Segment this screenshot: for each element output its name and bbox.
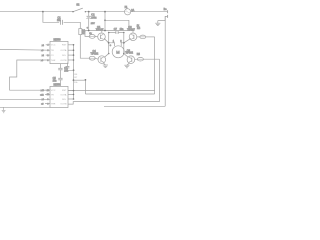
wire R2 to Q1 base <box>95 35 98 37</box>
resistor R3 oval <box>89 56 95 60</box>
resistor R1 <box>79 29 86 35</box>
svg-text:x6: x6 <box>41 50 44 52</box>
wire Q1 emitter diagonal <box>104 38 109 42</box>
node rail left top <box>108 32 110 34</box>
node bridge supply junction <box>104 11 106 13</box>
svg-text:TIP102: TIP102 <box>91 52 99 55</box>
node rail right top <box>123 32 125 34</box>
wire OUTA feedback <box>68 90 155 92</box>
wire Q1 pull-up <box>85 31 89 37</box>
node rail left bottom <box>108 53 110 55</box>
svg-text:+: + <box>87 27 89 30</box>
svg-text:2: 2 <box>47 55 48 57</box>
wire battery return bottom <box>104 105 165 107</box>
svg-text:M: M <box>116 50 119 55</box>
svg-text:+: + <box>110 44 112 47</box>
wire C4 to C5 <box>59 70 61 79</box>
IC U3 <box>50 84 68 107</box>
capacitor C4 <box>58 67 69 73</box>
svg-text:B+: B+ <box>164 8 168 11</box>
svg-text:C2: C2 <box>91 14 95 17</box>
svg-text:CV: CV <box>51 99 55 101</box>
svg-text:12: 12 <box>47 94 49 96</box>
svg-text:OUTB: OUTB <box>60 60 67 62</box>
wire U2 pin7 chain <box>59 64 61 69</box>
node timing net <box>85 79 87 81</box>
wire left motor rail <box>108 33 110 54</box>
U3 pin 4 stub <box>45 103 50 105</box>
U3 pin 1 stub <box>45 89 50 91</box>
capacitor C7 snubber <box>109 28 124 34</box>
node battery feed junction <box>42 11 44 13</box>
node bus upper <box>73 69 75 71</box>
svg-text:R5: R5 <box>137 53 141 56</box>
transistor Q3 <box>91 50 106 63</box>
svg-text:R7: R7 <box>74 77 78 79</box>
switch S2 <box>72 3 86 12</box>
svg-text:x12: x12 <box>40 94 44 96</box>
U2 right pin stubs <box>68 45 74 60</box>
ground reference mark <box>2 107 6 113</box>
ground Q4 <box>124 65 129 68</box>
node bus lower <box>73 79 75 81</box>
fuse F1 <box>125 6 135 15</box>
wire R1 down to Q3 base feed <box>80 35 89 59</box>
node motor left <box>108 42 110 44</box>
svg-text:10k: 10k <box>74 82 78 84</box>
wire loop V1 vertical <box>154 37 156 94</box>
U2 pin 3 stub <box>46 54 50 56</box>
svg-text:DIS: DIS <box>62 55 66 57</box>
wire battery minus to ground <box>158 16 168 20</box>
wire right motor rail <box>123 33 125 54</box>
svg-text:10: 10 <box>47 90 49 92</box>
node aux branch <box>104 19 106 21</box>
svg-text:THR: THR <box>51 60 56 62</box>
resistor R2 oval <box>89 33 95 38</box>
wire Q4 emitter to ground <box>127 63 130 65</box>
wire auxiliary supply branch <box>105 20 129 30</box>
wire top rail mid <box>85 11 124 13</box>
svg-text:TIP107: TIP107 <box>127 29 135 32</box>
wire timing node <box>74 79 86 81</box>
svg-text:CV: CV <box>51 55 55 57</box>
svg-text:TR: TR <box>51 50 54 52</box>
capacitor C5 <box>53 77 63 83</box>
wire Q4 collector diagonal <box>124 54 129 58</box>
IC U2 <box>50 39 68 63</box>
svg-text:100u: 100u <box>91 17 97 19</box>
wire Q2 collector stub <box>132 31 134 33</box>
U3 right pin stubs <box>68 91 74 99</box>
wire top rail right <box>131 11 168 13</box>
battery terminal - <box>167 15 169 18</box>
wire R5 to loop V2 <box>143 58 159 60</box>
ground battery <box>155 21 160 26</box>
wire right bus <box>73 45 75 99</box>
transistor Q4 <box>125 49 135 63</box>
wire C5 to U3 <box>59 80 61 87</box>
capacitor C2 <box>87 12 98 31</box>
svg-text:x8: x8 <box>41 104 44 106</box>
battery terminal + <box>167 10 169 13</box>
wire bridge supply rail <box>85 30 135 32</box>
svg-text:9: 9 <box>47 99 48 101</box>
wire loop V2 vertical <box>159 59 161 101</box>
wire C1 to R1 <box>64 22 81 28</box>
capacitor C1 <box>57 17 62 25</box>
transistor Q2 <box>127 26 137 41</box>
svg-text:10n: 10n <box>64 70 69 72</box>
wire Q2 emitter diagonal <box>124 38 131 42</box>
wire Q1 collector stub <box>101 31 103 33</box>
timing labels <box>74 74 78 84</box>
wire loop V1 horizontal <box>85 93 154 95</box>
wire motor terminal 2 <box>121 43 124 46</box>
svg-text:3: 3 <box>47 60 48 62</box>
svg-text:8: 8 <box>47 103 48 105</box>
ground Q3 <box>103 65 108 68</box>
svg-text:10n: 10n <box>53 81 58 83</box>
svg-text:25V: 25V <box>91 23 95 25</box>
wire C1 branch <box>43 12 59 23</box>
node C2 junction <box>88 11 90 13</box>
pin end labels left <box>40 45 49 106</box>
U2 pin 1 stub <box>46 44 50 46</box>
wire battery return vertical <box>164 16 166 106</box>
wire Q3 collector diagonal <box>104 54 108 58</box>
svg-text:VCC: VCC <box>51 90 56 92</box>
wire R3 to Q3 base <box>95 58 98 59</box>
svg-text:S2: S2 <box>76 3 80 6</box>
wire bottom rail left <box>0 106 50 108</box>
wire R4 to loop V1 <box>146 36 155 38</box>
svg-text:NE556: NE556 <box>54 39 62 41</box>
svg-text:R4: R4 <box>137 27 141 30</box>
node rail right bottom <box>123 53 125 55</box>
svg-text:THR: THR <box>51 104 56 106</box>
transistor Q1 <box>96 26 105 41</box>
resistor R4 oval <box>137 24 146 38</box>
svg-text:TIP107: TIP107 <box>96 29 104 32</box>
U2 pin 2 wire <box>0 48 50 51</box>
node motor right <box>123 42 125 44</box>
wire bridge supply drop <box>104 12 106 31</box>
svg-text:RST: RST <box>62 90 67 92</box>
U2 pin 4 wire <box>10 60 50 90</box>
resistor R5 oval <box>137 53 144 61</box>
svg-text:C1: C1 <box>58 17 62 20</box>
U3 pin 3 wire <box>0 98 50 100</box>
wire Q4 base <box>135 58 138 60</box>
node supply drop <box>104 30 106 32</box>
wire top rail left <box>0 11 73 13</box>
svg-text:OUTA: OUTA <box>60 93 66 96</box>
svg-text:4: 4 <box>47 45 48 47</box>
motor M1 <box>110 40 125 58</box>
svg-text:RST: RST <box>62 45 67 47</box>
U2 pin labels <box>42 45 67 62</box>
svg-text:x2: x2 <box>42 55 45 57</box>
U3 pin labels <box>42 90 67 105</box>
svg-text:VCC: VCC <box>51 45 56 47</box>
svg-text:DIS: DIS <box>62 99 66 101</box>
svg-text:OUTA: OUTA <box>60 49 66 52</box>
svg-text:6: 6 <box>47 50 48 52</box>
svg-text:OUTB: OUTB <box>60 104 67 106</box>
capacitor C6 <box>66 63 74 71</box>
wire OUTB feedback <box>68 102 160 105</box>
U3 pin 2 stub <box>45 93 50 95</box>
svg-text:TR: TR <box>51 94 54 96</box>
wire Q3 emitter to ground <box>103 63 105 65</box>
svg-text:TIP102: TIP102 <box>125 52 133 55</box>
node supply cap <box>88 30 90 32</box>
wire loop V1 left riser <box>84 80 86 94</box>
node bus pins U2 <box>73 44 75 100</box>
wire motor terminal 1 <box>109 43 115 46</box>
wire Q2 base <box>137 36 140 38</box>
svg-text:x4: x4 <box>42 45 45 47</box>
svg-text:R6: R6 <box>74 74 78 76</box>
svg-text:10n: 10n <box>57 20 62 22</box>
